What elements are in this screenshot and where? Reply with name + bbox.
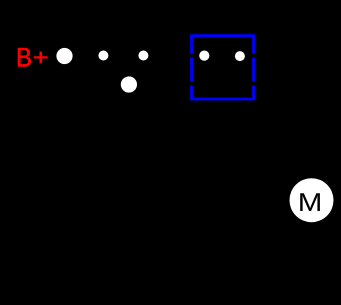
junction dot (B+ terminal) bbox=[56, 48, 72, 64]
switch terminal dot (right pin) bbox=[235, 51, 245, 61]
wire (top row, B+ bus crossing switch box) bbox=[64, 54, 311, 58]
wire (second row, crossing switch box) bbox=[129, 82, 311, 86]
junction dot 4 (lower row) bbox=[121, 76, 137, 92]
node B+ plus sign bbox=[34, 52, 47, 63]
motor M body bbox=[290, 178, 334, 222]
junction dot 2 bbox=[98, 51, 108, 61]
motor M label bbox=[300, 193, 320, 211]
node B+ bbox=[18, 48, 31, 66]
switch S1 (selected, blue highlight box) bbox=[192, 36, 254, 99]
switch terminal dot (left pin) bbox=[199, 51, 209, 61]
junction dot 3 bbox=[138, 51, 148, 61]
